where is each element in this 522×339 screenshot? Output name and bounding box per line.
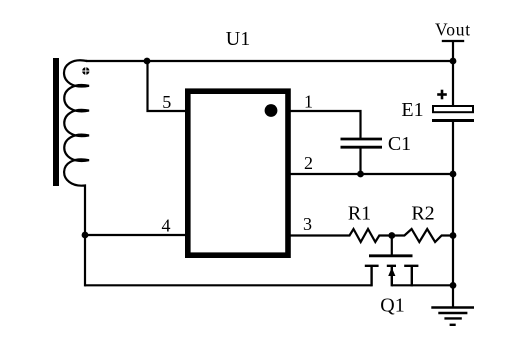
- U1 pin-1 marker dot: [265, 104, 278, 117]
- node: junction bottom rail and right column: [450, 282, 457, 289]
- capacitor C1: [341, 139, 383, 174]
- electrolytic capacitor E1 polarity plus: [437, 90, 447, 100]
- svg-text:1: 1: [304, 92, 313, 112]
- svg-text:U1: U1: [226, 28, 250, 50]
- node: junction Vout column and top rail: [450, 58, 457, 65]
- svg-text:R2: R2: [411, 203, 434, 225]
- resistor R2: [392, 229, 453, 242]
- wire: pin 1 to C1: [290, 111, 361, 138]
- resistor R1: [346, 229, 392, 242]
- ground symbol: [431, 308, 474, 325]
- wire: pin 2 rail to right column: [290, 173, 453, 175]
- svg-text:E1: E1: [401, 99, 423, 121]
- node: junction dot top-left: [144, 58, 151, 65]
- wire: bottom rail right segment from Q1 body to right column: [392, 284, 453, 286]
- svg-text:C1: C1: [388, 133, 411, 155]
- node: junction of pin-2 rail and right column: [450, 171, 457, 178]
- transistor Q1 body contact with arrow: [387, 266, 396, 287]
- wire: pin 4 to left column: [85, 234, 186, 236]
- svg-text:4: 4: [162, 216, 171, 236]
- node: junction left column pin 4: [82, 232, 89, 239]
- wire: pin 5 connection: [148, 61, 187, 111]
- node: junction R1/R2/gate: [388, 232, 395, 239]
- svg-text:Vout: Vout: [435, 20, 471, 40]
- terminal Vout: [435, 20, 471, 42]
- inductor winding (primary coil): [64, 60, 89, 235]
- svg-text:R1: R1: [348, 203, 371, 225]
- polarity dot mark on winding: [82, 67, 90, 75]
- transistor Q1 drain contact: [404, 266, 418, 287]
- transformer core bar: [53, 58, 59, 186]
- wire: left column down: [84, 235, 86, 286]
- IC U1 body: [188, 91, 288, 255]
- svg-text:3: 3: [303, 214, 312, 234]
- electrolytic capacitor E1: [432, 106, 474, 121]
- svg-text:2: 2: [304, 153, 313, 173]
- wire: bottom rail left segment to Q1 source: [85, 284, 372, 286]
- wire: right column upper segment: [452, 41, 454, 106]
- transistor Q1 gate lead: [391, 236, 393, 255]
- transistor Q1 gate plate: [369, 254, 413, 257]
- wire: pin 3 to R1: [290, 234, 346, 236]
- svg-text:Q1: Q1: [380, 295, 404, 317]
- node: junction of C1 and pin-2 rail: [357, 171, 364, 178]
- node: junction R2 and right column: [450, 232, 457, 239]
- transistor Q1 source contact: [365, 266, 379, 287]
- wire: top rail from winding to Vout column: [86, 60, 453, 62]
- svg-text:5: 5: [162, 92, 171, 112]
- wire: right column lower segment: [452, 122, 454, 307]
